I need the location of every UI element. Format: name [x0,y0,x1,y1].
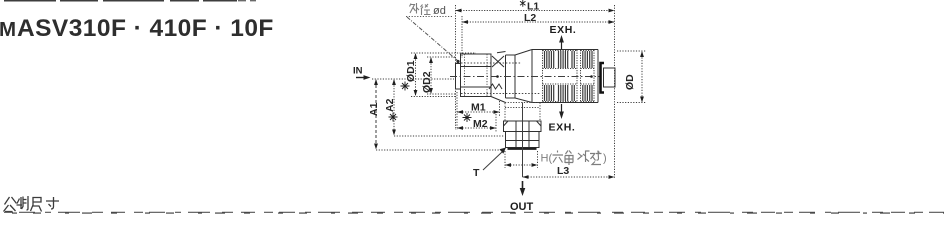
EXH. bottom arrow and label [561,104,563,112]
svg-text:M2: M2 [473,118,488,130]
part: inlet thread stub [456,64,461,90]
part: outlet center line [522,103,524,178]
part: main barrel [532,50,598,103]
svg-text:EXH.: EXH. [549,122,576,134]
part: collar [506,55,516,98]
svg-text:T: T [473,167,480,179]
part: chamfer transition [489,52,506,103]
svg-text:M: M [0,18,16,41]
label 外径ød with leader [410,3,431,15]
label 公制尺寸 [4,196,60,212]
dimension M1 [457,92,500,130]
axis junction dots [496,75,593,78]
part: knurl band B [581,50,595,103]
title MASV310F 410F 10F [0,15,274,42]
svg-text:M1: M1 [471,102,486,114]
bottom cut-off table border [4,211,944,213]
part: inlet hex block [461,54,492,97]
svg-text:ØD: ØD [624,74,636,90]
svg-text:EXH.: EXH. [550,24,577,36]
svg-text:A1: A1 [368,102,380,116]
label H(六角对边) [541,153,553,165]
dimension ØD1 [411,53,476,97]
dimension L2 [462,16,615,58]
part: knurl band A [543,50,578,103]
dimension M2 [457,114,496,132]
svg-text:L3: L3 [557,165,569,177]
axis extension left (dotted) [372,78,454,80]
svg-text:L1: L1 [527,1,539,13]
svg-text:ød: ød [433,5,446,17]
svg-text:IN: IN [353,66,363,77]
top cut-off table border [4,0,237,2]
dimension A1 [375,80,377,148]
dimension L3 [523,176,615,178]
svg-text:ØD2: ØD2 [421,71,433,93]
OUT arrow and label [522,181,524,189]
part: right end plug (bold) [601,63,605,93]
part: outlet port neck (hidden) [505,103,540,122]
svg-text:H(: H( [541,153,553,165]
svg-text:ØD1: ØD1 [405,60,417,82]
part: hidden bore lines [461,63,540,94]
part: axis center line [450,76,600,78]
svg-text:): ) [603,153,607,165]
part: outlet port hex [504,121,542,148]
dimension L1 [456,5,615,178]
dimension ØD right [617,51,646,103]
dimension H [505,151,538,168]
svg-text:OUT: OUT [510,201,534,213]
dimension A2 [393,80,395,134]
dimension ØD2 [427,57,456,94]
svg-text:A2: A2 [384,98,396,112]
svg-text:ASV310F · 410F · 10F: ASV310F · 410F · 10F [17,15,274,42]
part: cone taper to barrel [515,50,532,103]
svg-text:L2: L2 [524,12,536,24]
